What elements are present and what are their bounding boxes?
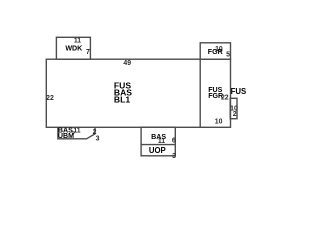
svg-text:11: 11 [74,38,81,45]
svg-text:22: 22 [221,95,229,102]
svg-text:2: 2 [233,111,237,118]
svg-text:6: 6 [172,138,176,145]
svg-text:7: 7 [86,49,90,56]
UBM bump outline [58,127,95,139]
svg-text:11: 11 [158,138,165,145]
svg-text:22: 22 [46,95,54,102]
svg-text:7: 7 [71,131,75,138]
porch divider wire [141,144,175,146]
svg-text:FGR: FGR [208,48,223,56]
svg-text:10: 10 [215,118,223,125]
svg-text:WDK: WDK [65,45,83,53]
interior partition wire [199,59,201,127]
main building outline [46,59,230,127]
svg-text:UOP: UOP [149,146,166,155]
FGR garage box [200,43,230,59]
svg-text:BL1: BL1 [114,94,130,104]
BAS/UOP porch box [141,127,175,156]
svg-text:49: 49 [123,60,131,67]
right narrow bay box [230,98,237,118]
WDK deck box [56,37,90,59]
svg-text:FUS: FUS [231,87,247,96]
svg-text:3: 3 [172,153,176,160]
svg-text:5: 5 [226,52,230,59]
svg-text:3: 3 [96,135,100,142]
